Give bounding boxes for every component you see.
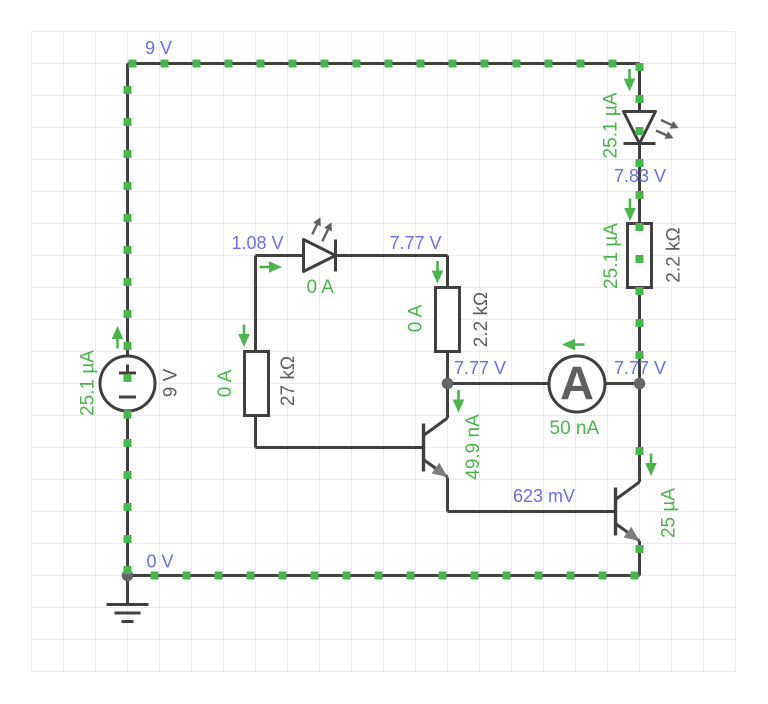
svg-text:7.77 V: 7.77 V (390, 233, 442, 253)
svg-text:50 nA: 50 nA (550, 418, 600, 439)
svg-text:25 µA: 25 µA (658, 488, 679, 538)
svg-text:27 kΩ: 27 kΩ (278, 356, 299, 406)
svg-text:9 V: 9 V (145, 38, 172, 58)
svg-text:7.83 V: 7.83 V (614, 166, 666, 186)
svg-text:623 mV: 623 mV (513, 486, 575, 506)
svg-text:0 A: 0 A (405, 304, 426, 332)
svg-text:7.77 V: 7.77 V (614, 358, 666, 378)
svg-text:25.1 µA: 25.1 µA (600, 92, 621, 158)
svg-text:25.1 µA: 25.1 µA (601, 223, 622, 289)
svg-text:7.77 V: 7.77 V (454, 358, 506, 378)
svg-text:0 V: 0 V (147, 552, 174, 572)
svg-text:2.2 kΩ: 2.2 kΩ (663, 227, 684, 282)
svg-text:0 A: 0 A (215, 369, 236, 397)
svg-text:25.1 µA: 25.1 µA (77, 350, 98, 416)
svg-text:0 A: 0 A (307, 277, 335, 298)
svg-text:1.08 V: 1.08 V (232, 233, 284, 253)
svg-text:9 V: 9 V (160, 368, 181, 397)
svg-text:A: A (560, 357, 594, 410)
svg-text:49.9 nA: 49.9 nA (463, 414, 484, 480)
svg-text:2.2 kΩ: 2.2 kΩ (471, 292, 492, 347)
